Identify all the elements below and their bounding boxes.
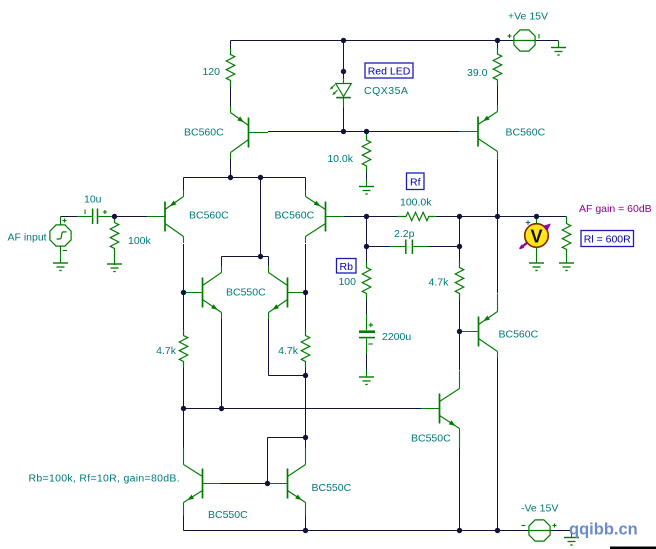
value 120 (202, 66, 220, 78)
wire bottom rail (184, 530, 529, 532)
wire diff pair emitter rail (184, 177, 306, 179)
ground R2 (359, 179, 374, 194)
window border fragment (610, 547, 656, 549)
value 4.7k mid (278, 345, 299, 357)
node node C2 right / R7 (457, 244, 462, 249)
svg-text:BC550C: BC550C (312, 482, 352, 494)
wire Q3 collector down (305, 244, 307, 330)
wire Q5 collector up (268, 257, 270, 267)
svg-text:BC560C: BC560C (499, 329, 539, 341)
svg-text:CQX35A: CQX35A (364, 85, 408, 97)
wire mid column down (305, 376, 307, 438)
svg-text:2.2p: 2.2p (394, 228, 415, 240)
node node bottom rail / Q8 (457, 528, 462, 533)
wire R5 column top (183, 293, 185, 330)
node node Rb top (364, 214, 369, 219)
label box Rf (407, 173, 425, 190)
svg-text:10u: 10u (84, 194, 102, 206)
svg-text:39.0: 39.0 (467, 67, 488, 79)
svg-text:2200u: 2200u (382, 331, 411, 343)
svg-text:Rb=100k, Rf=10R, gain=80dB.: Rb=100k, Rf=10R, gain=80dB. (29, 473, 180, 485)
wire Q2 emitter up (183, 178, 185, 192)
resistor R4 100 (362, 262, 371, 300)
wire R7 to Q7 base (459, 300, 461, 332)
wire Rf to output node (436, 216, 567, 218)
node node mid column / Q10 collector (303, 435, 308, 440)
wire Q9 emitter down (183, 516, 185, 531)
label Q9 Q10 BC550C (208, 509, 248, 521)
svg-text:Rl = 600R: Rl = 600R (584, 234, 631, 246)
label Q10 BC550C right (312, 482, 352, 494)
ground Rl (559, 256, 574, 271)
wire Q7 base node down (459, 332, 461, 371)
wire C3 to ground (366, 354, 368, 370)
value 2200u (382, 331, 411, 343)
wire Q9 collector up (183, 409, 185, 449)
capacitor C1 10u (77, 209, 112, 225)
svg-text:BC550C: BC550C (411, 433, 451, 445)
wire Q1 collector down (230, 159, 232, 178)
label AF input (8, 232, 47, 244)
label Q2 BC560C (189, 210, 229, 222)
wire Q8 emitter down (459, 448, 461, 531)
label Q7 BC560C (499, 329, 539, 341)
wire bottom pair base link (221, 483, 269, 485)
wire LED bottom (343, 108, 345, 132)
LED D1 CQX35A (330, 78, 352, 108)
transistor Q6 BC560C (460, 105, 498, 158)
ground C3 (359, 370, 374, 385)
source V+ +Ve 15V (508, 30, 540, 51)
label Q3 BC560C (275, 210, 315, 222)
svg-text:BC560C: BC560C (189, 210, 229, 222)
svg-text:BC560C: BC560C (506, 127, 546, 139)
label box Rl (581, 231, 634, 247)
wire R7 top (459, 247, 461, 262)
svg-text:Rb: Rb (340, 261, 354, 273)
value 10.0k (327, 153, 353, 165)
wire Q4 collector up (221, 257, 223, 267)
resistor R6 4.7k (301, 330, 310, 368)
wire output to Rl (566, 217, 568, 219)
svg-text:-Ve 15V: -Ve 15V (521, 503, 558, 515)
watermark qqibb.cn (569, 521, 638, 539)
label Q8 BC550C (411, 433, 451, 445)
transistor Q5 BC550C (269, 266, 306, 319)
transistor Q3 BC560C (306, 190, 345, 243)
node node R5 / VAS bus (181, 406, 186, 411)
wire VAS base bus (184, 408, 422, 410)
node node base bus / R2 (364, 129, 369, 134)
label Q4 Q5 BC550C (226, 287, 266, 299)
transistor Q9 BC550C (184, 448, 221, 516)
wire top rail (231, 40, 514, 42)
wire LED top (343, 41, 345, 79)
value CQX35A (364, 85, 408, 97)
node node output column (495, 214, 500, 219)
wire base link vertical (267, 438, 269, 484)
wire AF input to C1 (61, 216, 78, 218)
wire Rb node left (367, 246, 390, 248)
node node bottom rail / Q7 (495, 528, 500, 533)
svg-text:100: 100 (338, 276, 356, 288)
resistor R2 10.0k (362, 134, 371, 172)
node node Rb / C2 left (364, 244, 369, 249)
svg-text:AF gain = 60dB: AF gain = 60dB (579, 203, 652, 215)
wire Q2 collector down (183, 244, 185, 293)
wire R2 top (366, 132, 368, 135)
wire node A down (260, 178, 262, 257)
label box Red LED (365, 63, 413, 78)
wire Rb node down (366, 217, 368, 247)
svg-text:Rf: Rf (410, 176, 421, 188)
svg-text:4.7k: 4.7k (278, 345, 299, 357)
wire Q5 emitter to R mid (269, 375, 306, 377)
resistor Rl 600R (562, 217, 571, 258)
voltmeter VM1 (519, 217, 551, 256)
node node top rail / LED (341, 38, 346, 43)
wire Q4 emitter down (221, 319, 223, 409)
svg-text:4.7k: 4.7k (156, 345, 177, 357)
value 100.0k (400, 197, 432, 209)
ground V+ (551, 41, 566, 56)
node node LED anode (341, 69, 346, 74)
resistor R8 100k (110, 217, 119, 266)
node node Q4 emitter / VAS bus (219, 406, 224, 411)
wire R4 to C3 (366, 300, 368, 315)
wire -Ve source to ground (551, 530, 572, 532)
resistor R3 39.0 (493, 48, 502, 86)
svg-text:BC560C: BC560C (275, 210, 315, 222)
wire base link horizontal (268, 437, 306, 439)
node node Rf right (457, 214, 462, 219)
node node Q2 collector / Q4 base (181, 290, 186, 295)
label -Ve 15V (521, 503, 558, 515)
note gain formula (29, 473, 180, 485)
svg-text:qqibb.cn: qqibb.cn (569, 521, 638, 539)
capacitor C2 2.2p (390, 240, 429, 255)
svg-text:BC550C: BC550C (208, 509, 248, 521)
value 4.7k left (156, 345, 177, 357)
node node LED cathode / base bus (341, 129, 346, 134)
wire R4 top (366, 247, 368, 262)
source VG1 AF input (50, 217, 71, 256)
wire R1 to Q1 emitter (230, 87, 232, 113)
label Q1 BC560C (184, 127, 224, 139)
capacitor C3 2200u (359, 314, 375, 354)
node node Q1 collector / emitter rail (228, 175, 233, 180)
wire R5 column bottom (183, 368, 185, 409)
resistor R5 4.7k (179, 330, 188, 368)
svg-text:V: V (530, 227, 542, 247)
value 100k (128, 235, 152, 247)
resistor R7 4.7k (455, 262, 464, 300)
transistor Q4 BC550C (184, 266, 222, 319)
wire R2 to ground (366, 172, 368, 179)
svg-text:+Ve 15V: +Ve 15V (508, 11, 548, 23)
transistor Q2 BC560C (147, 190, 184, 243)
transistor Q7 BC560C (460, 294, 498, 359)
value 100 (338, 276, 356, 288)
label AF gain (579, 203, 652, 215)
resistor R1 120 (226, 49, 235, 87)
node node tail / mirror (258, 254, 263, 259)
label box Rb (337, 259, 357, 274)
resistor Rf 100.0k (397, 212, 435, 220)
node node bottom pair bases (265, 481, 270, 486)
node node Q3 collector / Q5 base (303, 290, 308, 295)
svg-text:4.7k: 4.7k (429, 277, 450, 289)
wire Q6 collector down (497, 159, 499, 294)
wire Q3 emitter up (305, 178, 307, 192)
wire Q7 collector down (497, 358, 499, 531)
wire Q5 emitter down (268, 319, 270, 376)
wire node B down (459, 217, 461, 247)
wire R3 top (497, 41, 499, 49)
svg-text:100k: 100k (128, 235, 152, 247)
svg-text:Red LED: Red LED (368, 66, 411, 78)
node node top rail / R3 (495, 38, 500, 43)
node node C1 / R8 / Q2 base (112, 214, 117, 219)
wire base bus Q1-Q6 (268, 131, 460, 133)
svg-text:10.0k: 10.0k (327, 153, 353, 165)
node node emitter rail / tail (258, 175, 263, 180)
wire R3 to Q6 emitter (497, 86, 499, 106)
svg-text:AF input: AF input (8, 232, 47, 244)
wire Q10 emitter down (305, 516, 307, 531)
value 39.0 (467, 67, 488, 79)
value 10u (84, 194, 102, 206)
value 2.2p (394, 228, 415, 240)
wire C2 to node (429, 246, 460, 248)
svg-text:BC550C: BC550C (226, 287, 266, 299)
label +Ve 15V (508, 11, 548, 23)
wire +Ve source to ground (536, 40, 559, 42)
ground VG1 (53, 256, 68, 271)
ground R8 (107, 257, 122, 272)
value 4.7k right (429, 277, 450, 289)
transistor Q10 BC550C (269, 448, 306, 516)
label Q6 BC560C (506, 127, 546, 139)
source V- -Ve 15V (522, 520, 557, 541)
transistor Q1 BC560C (231, 106, 269, 159)
ground V- (564, 531, 579, 546)
node node R7 / Q7 base (457, 329, 462, 334)
wire R6 to node (305, 368, 307, 376)
node node voltmeter tap (534, 214, 539, 219)
node node bottom rail / Q10 (303, 528, 308, 533)
wire Q10 collector up (305, 438, 307, 449)
transistor Q8 BC550C (421, 371, 460, 449)
ground VM1 (529, 256, 544, 271)
node node R6 / Q5 emitter (303, 373, 308, 378)
svg-text:BC560C: BC560C (184, 127, 224, 139)
wire mirror collector link (222, 256, 269, 258)
wire C1 to Q2 base (115, 216, 148, 218)
wire R1 top (230, 41, 232, 49)
wire Q3 base to Rf (344, 216, 397, 218)
svg-text:120: 120 (202, 66, 220, 78)
svg-text:100.0k: 100.0k (400, 197, 432, 209)
